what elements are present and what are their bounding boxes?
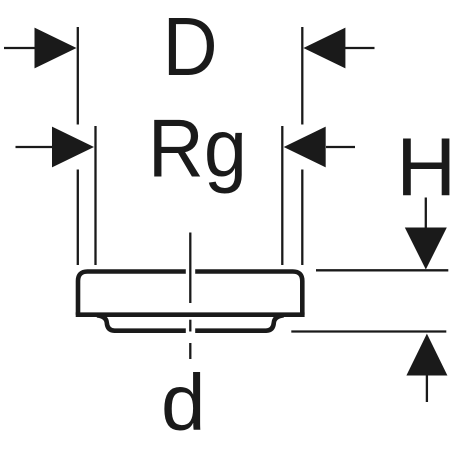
centerline dash 2 [189,320,191,332]
extension line Rg right [281,126,283,265]
dimension Rg: right arrowhead [284,127,326,168]
H top reference line [316,269,448,271]
dimension D: right arrowhead [303,28,345,69]
svg-text:d: d [161,358,206,447]
dimension Rg: right tail line [326,146,355,148]
svg-text:D: D [163,0,218,93]
svg-text:H: H [396,121,450,214]
extension line D left (upper segment) [77,27,79,125]
cap body outline [78,272,302,315]
centerline dash 3 [189,343,191,359]
H bottom reference line [291,330,446,332]
extension line D right (upper segment) [301,27,303,125]
cap skirt outline [97,315,284,330]
dimension H: bottom tail line [426,376,428,403]
dimension D: left tail line [4,47,37,49]
extension line D right (lower segment) [301,170,303,266]
dimension H: up arrowhead [406,334,447,376]
extension line Rg left [94,126,96,265]
dimension Rg: left tail line [16,146,55,148]
dimension H: down arrowhead [405,228,447,270]
cap body bottom edge [76,312,305,317]
svg-text:Rg: Rg [148,102,247,195]
centerline dash 1 [189,233,191,304]
centerline halo lower [186,318,195,336]
extension line D left (lower segment) [77,170,79,266]
centerline halo upper [186,228,195,305]
dimension D: right tail line [344,47,375,49]
dimension Rg: left arrowhead [52,127,94,168]
dimension D: left arrowhead [35,28,77,69]
dimension H: top tail line [425,198,427,228]
